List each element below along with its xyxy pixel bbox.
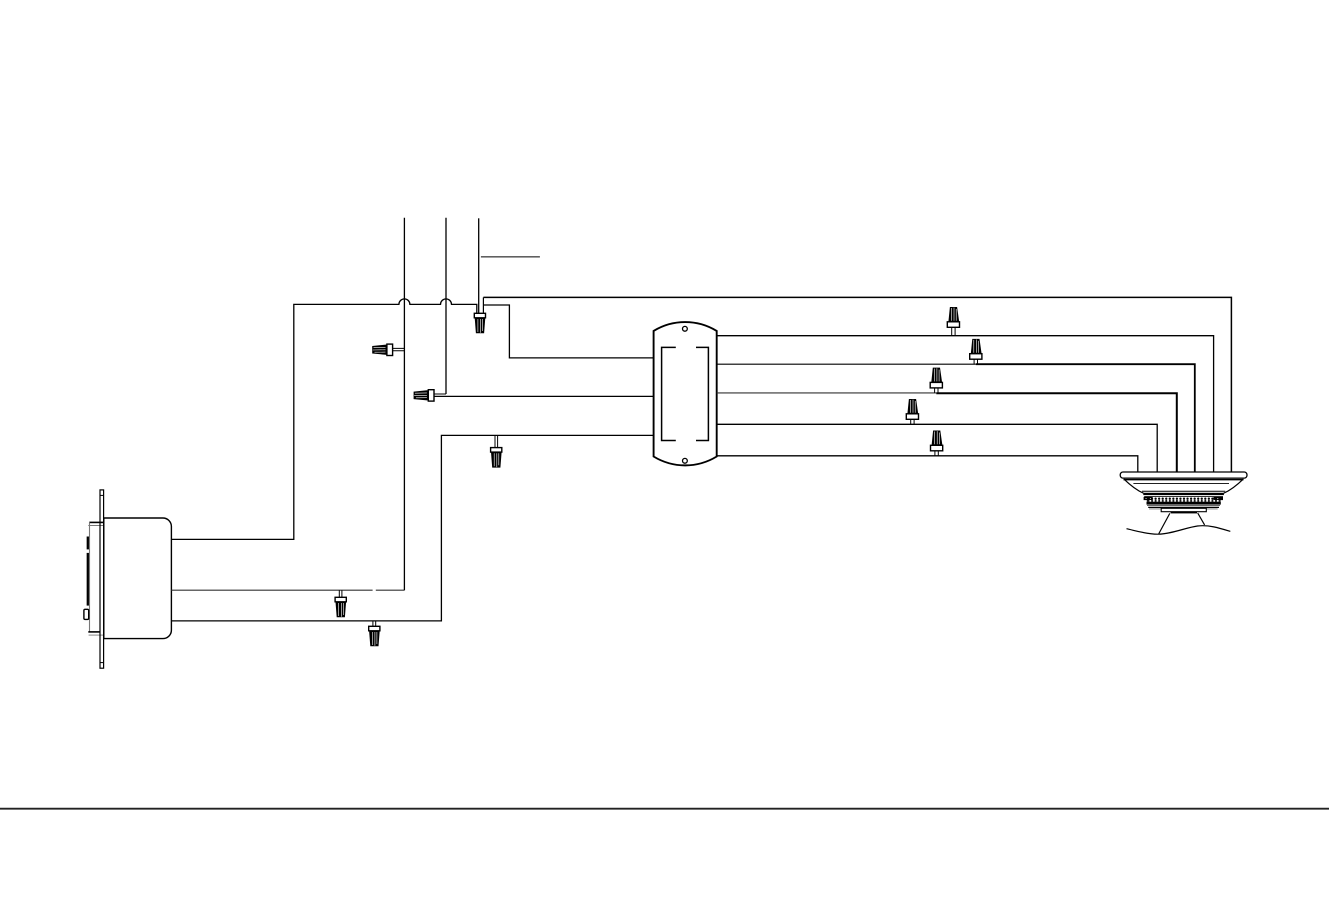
footer rule [0, 808, 1329, 810]
wire: control to fan 4 [717, 424, 1157, 472]
canopy flare right [1224, 479, 1244, 493]
downrod right [1198, 513, 1205, 525]
wire: box bottom wire to wall control [171, 435, 653, 621]
canopy lower line [1148, 506, 1219, 508]
wire nut on fan wire 5 [931, 431, 943, 456]
wire: control to fan 5 [717, 456, 1138, 472]
wire: box top lead up to ceiling run (with wire hops) [171, 299, 476, 540]
canopy band 1 [1143, 493, 1224, 495]
wall control top screw [683, 326, 688, 331]
fan canopy ceiling plate [1120, 472, 1247, 478]
back box side tab [84, 609, 89, 619]
wall control body (side view) [104, 518, 172, 639]
wire nut (hanging) on wall-control feed wire [491, 435, 502, 467]
wire nut on fan wire 1 [947, 307, 959, 336]
wall control opening right bracket [696, 347, 708, 440]
wall control opening left bracket [662, 347, 676, 440]
wire nut on fan wire 2 [970, 339, 982, 364]
canopy band 3 [1147, 502, 1221, 505]
wire: supply run to fan (top) [483, 297, 1231, 472]
supply wire 2 from ceiling [445, 218, 447, 394]
canopy bead row end caps [1144, 497, 1153, 500]
wall control faceplate [654, 322, 717, 465]
wire: box middle wire to supply vertical [171, 589, 404, 591]
canopy inner line [1133, 482, 1229, 484]
wire nut (horizontal) on supply wire 2 [414, 390, 446, 401]
canopy hub band [1171, 512, 1197, 514]
wire: control to fan 3 [717, 392, 937, 394]
canopy scallop band [1147, 500, 1221, 502]
canopy flare left [1124, 479, 1144, 493]
wire: control to fan 1 [717, 336, 1214, 472]
supply wire 1 from ceiling [403, 218, 405, 590]
wire nut (hanging) at supply splice [474, 313, 485, 333]
wire nut (horizontal) on supply wire 1 [372, 344, 404, 355]
canopy band 1 top line [1142, 490, 1225, 492]
canopy band 4 gray [1147, 504, 1220, 507]
wire: control to fan 2 [717, 363, 976, 365]
canopy bead row [1147, 498, 1220, 500]
wall mounting plate [100, 490, 104, 668]
supply wire 3 from ceiling [478, 218, 480, 313]
wire nut on fan wire 4 [906, 399, 918, 424]
reference tick line [481, 256, 540, 258]
wire: splice to wall control top [483, 305, 653, 358]
wire nut on fan wire 3 [930, 368, 942, 393]
downrod left [1159, 513, 1170, 534]
wire: splice lead to fan supply run [482, 297, 484, 313]
wire nut (hanging) on box bottom wire [369, 621, 380, 646]
receiver back box (side view) [88, 522, 104, 635]
wall control bottom screw [683, 458, 688, 463]
canopy lower gray band [1149, 508, 1218, 509]
wire: splice to wall control middle [434, 395, 654, 397]
wire nut (hanging) on box middle wire [335, 590, 346, 617]
canopy switch housing [1161, 508, 1206, 511]
canopy plate under line [1124, 479, 1244, 481]
canopy band 2 [1144, 495, 1223, 498]
fan body curve [1127, 526, 1231, 535]
back box left edge segments [87, 537, 89, 606]
